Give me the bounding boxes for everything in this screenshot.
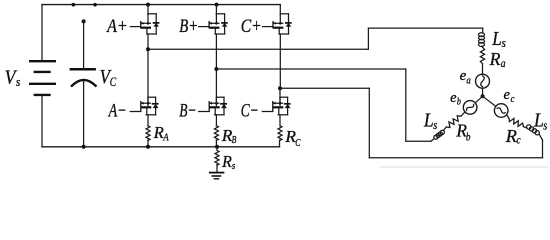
wire La to Ra xyxy=(482,45,484,48)
wire: phase A top run to motor xyxy=(368,27,482,29)
wire: phase B bottom run to Lb xyxy=(406,140,431,142)
wire Rb to Lb coil xyxy=(444,127,447,130)
transistor C- xyxy=(262,97,290,115)
wire: B+ drain leg xyxy=(215,5,217,15)
wire: star center to eb xyxy=(475,96,482,103)
wire: B+ source leg to phase B xyxy=(215,34,217,69)
battery Vs top wire xyxy=(41,5,43,60)
svg-text:A: A xyxy=(162,131,168,143)
inductor Ls (phase b) xyxy=(434,130,445,139)
capacitor Vc curved plate xyxy=(71,80,97,87)
wire ec to Rc xyxy=(507,115,509,119)
svg-text:B: B xyxy=(232,134,237,146)
svg-text:s: s xyxy=(16,74,20,89)
node: RA bottom junction xyxy=(146,145,150,149)
node: phase C junction xyxy=(278,86,282,90)
wire: A+ source leg to phase A xyxy=(147,34,149,49)
wire Rs to ground xyxy=(216,165,218,172)
transistor A+ xyxy=(130,14,159,34)
resistor RB xyxy=(214,126,218,141)
svg-text:c: c xyxy=(516,133,521,147)
wire Lb coil to corner xyxy=(431,139,435,142)
svg-text:s: s xyxy=(543,117,547,132)
wire: phase C rise to Lc xyxy=(542,140,544,158)
wire: phase C horizontal xyxy=(280,87,369,89)
transistor A- xyxy=(130,97,158,115)
svg-text:s: s xyxy=(433,117,437,132)
resistor Rb xyxy=(446,116,461,128)
svg-text:L: L xyxy=(491,28,501,50)
svg-text:A−: A− xyxy=(107,101,126,122)
wire RA to bottom rail xyxy=(147,140,149,147)
svg-text:C: C xyxy=(295,137,301,149)
wire eb to Rb xyxy=(461,112,465,116)
transistor B- xyxy=(199,97,227,115)
svg-text:C+: C+ xyxy=(241,16,262,37)
node dot artifact 1 on top rail xyxy=(72,3,76,7)
svg-text:C: C xyxy=(110,74,117,89)
svg-text:R: R xyxy=(489,49,501,69)
svg-text:R: R xyxy=(505,126,517,146)
wire: star center to ec xyxy=(483,96,496,106)
resistor RA xyxy=(146,126,150,141)
svg-text:B−: B− xyxy=(179,101,196,122)
svg-text:a: a xyxy=(501,56,506,70)
inductor Ls (phase c) xyxy=(527,125,540,135)
faint artifact line xyxy=(380,166,548,168)
capacitor Vc bottom wire xyxy=(83,81,85,147)
bottom rail xyxy=(42,146,280,148)
wire: A- source leg to RA xyxy=(147,115,149,126)
battery Vs plates xyxy=(29,60,56,62)
source eb xyxy=(463,101,477,115)
wire Ra to ea xyxy=(482,64,484,75)
wire: A+ drain leg xyxy=(147,5,149,15)
svg-text:b: b xyxy=(466,130,471,144)
wire: C- drain leg xyxy=(279,88,281,105)
transistor B+ xyxy=(199,14,228,34)
node: B+ drain junction on top rail xyxy=(215,3,219,7)
wire: phase A vertical rise xyxy=(367,28,369,49)
wire: phase B horizontal xyxy=(216,68,405,70)
capacitor Vc top plate xyxy=(70,68,96,71)
wire Lc to corner xyxy=(539,134,543,140)
node dot at capacitor top lead xyxy=(82,19,86,23)
svg-text:s: s xyxy=(232,160,235,172)
svg-text:A+: A+ xyxy=(105,16,127,37)
wire ea to star center xyxy=(482,88,484,96)
resistor Rs xyxy=(215,147,219,165)
svg-text:e: e xyxy=(504,87,511,103)
svg-text:L: L xyxy=(533,109,544,131)
source ec xyxy=(494,104,508,118)
wire Rc to Lc coil xyxy=(524,127,527,128)
svg-text:b: b xyxy=(457,96,461,107)
node: capacitor bottom junction xyxy=(82,145,86,149)
battery Vs bottom wire xyxy=(41,96,43,147)
inductor Ls (phase a) xyxy=(479,33,485,47)
wire: phase A horizontal xyxy=(148,48,368,50)
wire: phase B vertical drop xyxy=(405,69,407,141)
node: Rs junction xyxy=(215,145,219,149)
top rail (+) xyxy=(42,4,280,6)
svg-text:a: a xyxy=(466,76,470,87)
source ea xyxy=(476,74,490,88)
node: star center xyxy=(481,94,485,98)
svg-text:e: e xyxy=(450,90,457,106)
capacitor Vc top wire xyxy=(83,21,85,68)
resistor RC xyxy=(278,126,282,141)
svg-text:c: c xyxy=(511,94,515,105)
node: phase A junction xyxy=(146,47,150,51)
resistor Ra xyxy=(480,47,484,64)
svg-text:R: R xyxy=(221,152,232,171)
wire RB to bottom rail xyxy=(215,140,217,147)
wire: C+ drain leg from rail corner xyxy=(279,5,281,15)
wire: C+ source leg to phase C xyxy=(279,34,281,88)
transistor C+ xyxy=(263,14,292,34)
wire: phase C vertical drop xyxy=(368,88,370,157)
svg-text:C−: C− xyxy=(241,101,259,122)
node: A+ drain junction on top rail xyxy=(146,3,150,7)
svg-text:L: L xyxy=(423,110,434,132)
wire: phase A drop to La xyxy=(482,28,484,33)
svg-text:B+: B+ xyxy=(179,16,198,37)
node: phase B junction xyxy=(214,67,218,71)
wire: B- drain leg xyxy=(215,69,217,106)
wire: A- drain leg xyxy=(147,49,149,105)
node dot artifact 2 on top rail xyxy=(93,3,97,7)
svg-text:s: s xyxy=(502,35,506,50)
resistor Rc xyxy=(509,118,524,126)
wire: phase C bottom run xyxy=(369,157,542,159)
wire RC to bottom rail corner xyxy=(279,140,281,147)
wire: C- source leg to RC xyxy=(279,115,281,126)
wire: B- source leg to RB xyxy=(215,115,217,126)
ground xyxy=(209,172,225,174)
